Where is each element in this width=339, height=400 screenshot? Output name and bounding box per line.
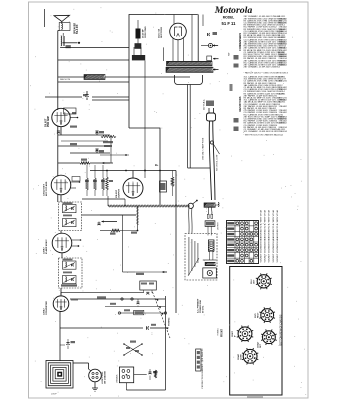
rect tube leads — [172, 38, 174, 61]
line cord cap — [202, 15, 204, 27]
loop antenna — [46, 361, 73, 389]
resistor R10 — [172, 171, 174, 178]
socket V4 12SQ7 — [261, 329, 277, 345]
wire y82 — [58, 81, 129, 83]
svg-text:TUNING: TUNING — [218, 328, 220, 336]
wire y77 — [58, 76, 84, 78]
terminal arrow C — [213, 69, 219, 71]
component right of bar — [207, 56, 212, 61]
resistor 470K — [58, 162, 80, 164]
vertical feed x145 — [144, 61, 146, 179]
svg-text:CONVERTER: CONVERTER — [46, 301, 48, 315]
svg-text:RESISTORS: RESISTORS — [238, 96, 242, 111]
plug ground lead — [94, 382, 96, 388]
osc cap pair — [146, 291, 149, 293]
output transformer primary — [61, 36, 62, 46]
wire y306 — [105, 306, 166, 308]
svg-text:17B4402: 17B4402 — [279, 123, 288, 125]
svg-text:60 CYC: 60 CYC — [203, 305, 205, 313]
svg-text:CONDENSERS: CONDENSERS — [238, 33, 242, 52]
scan noise — [30, 7, 306, 396]
bus down right — [175, 171, 177, 314]
svg-text:ON CHASSIS: ON CHASSIS — [104, 370, 107, 384]
loop plug — [89, 369, 102, 382]
V5 top lead — [132, 171, 134, 179]
shield ground circle — [188, 203, 193, 208]
wire y60 bus — [58, 59, 129, 61]
terminal strip — [204, 203, 215, 207]
resistor R12 row — [101, 135, 116, 137]
wire y199 — [82, 198, 125, 200]
wire loop to plug — [73, 362, 89, 364]
electrolytic bar — [136, 29, 141, 39]
shield drop — [136, 206, 138, 231]
svg-text:RECTIFIER: RECTIFIER — [161, 27, 163, 38]
stem footnote — [206, 101, 214, 107]
gang arrows — [156, 299, 158, 301]
resistor R6 — [94, 165, 96, 178]
right join vertical — [110, 135, 112, 163]
tuning gang dashed diagonal — [153, 292, 171, 338]
terminal arrow A — [213, 45, 219, 47]
loop terminal label — [61, 284, 77, 286]
stem to cord wire — [188, 167, 210, 169]
wire y299 — [70, 298, 166, 300]
tube socket voltage table — [227, 221, 259, 264]
wire y43 to terminal — [62, 42, 77, 44]
IF transformer T1 dashed can — [59, 258, 83, 288]
IF cap left — [57, 130, 60, 132]
arrow y221 — [102, 221, 118, 223]
svg-text:SOCKET VOLTAGES MEASURED TO B-: SOCKET VOLTAGES MEASURED TO B- WITH VTVM — [272, 210, 275, 262]
AVC shielded wire — [108, 205, 190, 208]
buffer bar — [135, 43, 142, 49]
wire y313 with padder — [119, 312, 133, 314]
svg-text:3C1 CERAMIC .05 MF 400V 6L5911: 3C1 CERAMIC .05 MF 400V 6L59112 — [244, 130, 281, 133]
electrolytic can — [208, 240, 214, 252]
svg-text:21B6914: 21B6914 — [279, 131, 288, 133]
wire speaker down — [57, 31, 59, 83]
jack base — [205, 262, 215, 265]
wire 470K arrow — [135, 271, 162, 273]
tube V2 det-avc — [51, 175, 71, 195]
power cord — [209, 121, 211, 200]
bottom caption — [247, 396, 263, 398]
wire T2 to V3 — [60, 231, 62, 234]
ground — [92, 387, 98, 389]
vibrator bar — [132, 55, 145, 60]
strip squiggle — [218, 203, 219, 207]
svg-text:LOOP: LOOP — [51, 394, 57, 396]
wire y215 out — [82, 214, 136, 216]
footnote marks — [234, 55, 239, 60]
phone jack — [203, 268, 217, 278]
vol control junction — [137, 230, 139, 232]
transformer loop — [175, 75, 203, 85]
wire y153 — [70, 152, 110, 154]
diag line in box — [188, 258, 199, 276]
pin lugs — [207, 214, 209, 218]
svg-text:SW ON VOL CONT: SW ON VOL CONT — [217, 154, 219, 171]
tube V4 converter — [53, 296, 69, 312]
svg-text:SOCKET VOLTAGES MEASURED TO B-: SOCKET VOLTAGES MEASURED TO B- WITH VTVM — [268, 210, 271, 262]
box lower step — [129, 128, 160, 205]
wire y135 — [58, 134, 110, 136]
svg-text:USE ONLY 2 AMP FUSE: USE ONLY 2 AMP FUSE — [202, 137, 205, 160]
socket V1 50L6 — [256, 273, 272, 289]
terminal arrow mid — [102, 162, 110, 164]
AVC feed from V2 stage — [107, 196, 109, 206]
terminal arrow B — [213, 58, 219, 60]
cap C7 — [96, 131, 98, 135]
lead to arrow — [193, 201, 197, 204]
svg-text:SOCKET VOLTAGES MEASURED TO B-: SOCKET VOLTAGES MEASURED TO B- WITH VTVM — [260, 210, 263, 262]
T2 labels — [63, 202, 73, 204]
socket V2 35Z5 — [259, 307, 275, 323]
svg-text:TUNING: TUNING — [169, 317, 171, 326]
wire y155 — [100, 154, 129, 156]
vibrator socket box — [119, 367, 133, 383]
left rail — [57, 82, 59, 110]
IF transformer T2 dashed can — [59, 202, 82, 231]
voice coil — [61, 24, 62, 30]
svg-text:CONV: CONV — [240, 354, 242, 360]
socket V3 ant — [237, 326, 253, 342]
part number box — [196, 349, 201, 371]
field coil label — [66, 45, 71, 48]
svg-text:BOTTOM VIEW OF CHASSIS: BOTTOM VIEW OF CHASSIS — [280, 314, 283, 345]
svg-text:SOCKET VOLTAGES MEASURED TO B-: SOCKET VOLTAGES MEASURED TO B- WITH VTVM — [276, 210, 279, 262]
power unit box outline — [129, 15, 198, 129]
oscillator coil box — [140, 281, 157, 290]
svg-text:AVC 1ST AUD: AVC 1ST AUD — [45, 181, 48, 196]
svg-text:ON BACK: ON BACK — [116, 374, 119, 383]
svg-text:Motorola: Motorola — [214, 5, 253, 16]
svg-text:12SA7: 12SA7 — [43, 308, 46, 315]
wire y146 — [58, 145, 110, 147]
wire y47 bus — [60, 46, 129, 48]
resistor R11 — [106, 177, 109, 190]
vertical x122 — [122, 215, 124, 272]
svg-text:SOCKET VOLTAGES MEASURED TO B-: SOCKET VOLTAGES MEASURED TO B- WITH VTVM — [264, 210, 267, 262]
transformer core — [63, 36, 65, 46]
svg-text:51 F 11: 51 F 11 — [222, 21, 237, 26]
AC plug — [207, 113, 216, 121]
tube socket layout box — [230, 267, 282, 396]
svg-text:IF AMP 455KC: IF AMP 455KC — [45, 239, 48, 254]
svg-text:SW: SW — [229, 53, 231, 56]
wire y100 — [92, 99, 129, 101]
wire V2 down — [60, 195, 62, 202]
svg-text:150V COND: 150V COND — [145, 26, 147, 38]
power transformer secondary bar — [166, 67, 213, 72]
svg-text:OUTPUT: OUTPUT — [119, 188, 121, 198]
wire top feeds — [163, 47, 165, 61]
svg-text:50L6 P.P.: 50L6 P.P. — [77, 24, 79, 34]
antenna stub — [44, 9, 46, 27]
shielded pair to speaker box — [188, 208, 190, 234]
svg-text:8B65231: 8B65231 — [279, 81, 288, 83]
switch on cord — [210, 141, 213, 144]
power transformer primary bar — [167, 61, 213, 66]
wire y292 to osc box — [60, 292, 62, 296]
svg-text:SPEAKER: SPEAKER — [74, 23, 77, 34]
grid cap box V1 — [64, 108, 77, 114]
wire y215 mid — [100, 214, 136, 216]
wire x125 y199-206 — [124, 199, 126, 206]
tube V3 IF amp — [52, 233, 72, 253]
speaker box text — [188, 237, 190, 275]
output tube V5 — [123, 178, 143, 198]
box to cap wire — [134, 374, 147, 376]
rectifier tube — [170, 23, 187, 40]
twisted pair down — [207, 207, 209, 214]
svg-text:6L5911: 6L5911 — [279, 93, 287, 95]
cap C8 — [96, 149, 98, 153]
wire V4 down to loop — [59, 312, 61, 362]
svg-text:OUTPUT: OUTPUT — [218, 221, 220, 230]
fuse — [208, 43, 212, 47]
shielded stem — [187, 85, 189, 169]
B plus bus — [90, 170, 176, 172]
svg-text:FRONT: FRONT — [222, 328, 224, 337]
osc cap — [60, 344, 65, 346]
socket V5 osc — [242, 348, 258, 364]
choke leads — [207, 226, 209, 235]
cap x150 — [149, 369, 151, 372]
cathode cluster — [159, 171, 161, 182]
choke box — [205, 221, 215, 227]
svg-text:17B4402: 17B4402 — [279, 106, 288, 108]
V3 plate lead — [72, 245, 78, 247]
resistor 240 — [100, 230, 111, 232]
svg-text:2B7 CERAMIC .05 MF 400V 21B691: 2B7 CERAMIC .05 MF 400V 21B6914 — [244, 66, 281, 69]
wire y328 with cap — [60, 327, 143, 329]
small cap x138 — [137, 299, 139, 302]
svg-text:* SEE PRODUCTION CHANGES 8A4: * SEE PRODUCTION CHANGES 8A4431-A — [244, 134, 284, 137]
value labels bottom mid — [110, 303, 116, 305]
T1 labels — [63, 259, 73, 261]
resistor R5 — [86, 165, 88, 178]
svg-text:50L6GT: 50L6GT — [46, 118, 48, 127]
resistor R7 — [102, 165, 104, 178]
speaker dashed box — [185, 234, 217, 281]
V2 grid leads — [71, 181, 79, 183]
X cluster — [124, 344, 142, 355]
svg-text:PWR AMP: PWR AMP — [47, 116, 50, 127]
can leads — [209, 251, 211, 260]
svg-text:RECT: RECT — [257, 312, 259, 318]
wire T1 down — [60, 288, 62, 295]
vertical right rail bottom — [165, 296, 167, 390]
capacitor C1 on y97 line — [45, 96, 82, 98]
speaker — [54, 15, 70, 21]
svg-text:21B6914: 21B6914 — [279, 65, 288, 67]
wire y141 — [61, 140, 108, 142]
fuse resistor bar — [84, 75, 105, 80]
svg-text:MODEL: MODEL — [223, 16, 235, 20]
svg-text:SEE NOTE: SEE NOTE — [60, 79, 71, 81]
svg-text:B+: B+ — [155, 163, 159, 167]
tube V1 audio output — [52, 108, 70, 126]
svg-text:PRODUCTION CHANGES - SEE PAGE: PRODUCTION CHANGES - SEE PAGE 12 — [201, 348, 204, 389]
V1 pin lead — [70, 117, 77, 119]
bottom wire — [125, 383, 127, 390]
svg-text:117 V. A.C.: 117 V. A.C. — [203, 99, 206, 110]
resistor 22K label — [70, 126, 77, 128]
